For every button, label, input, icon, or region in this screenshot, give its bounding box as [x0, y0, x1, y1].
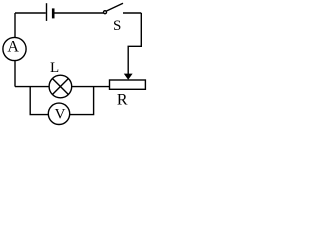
svg-text:A: A [7, 38, 19, 55]
svg-text:S: S [113, 18, 121, 34]
svg-text:L: L [50, 60, 59, 76]
svg-text:V: V [55, 107, 66, 123]
svg-text:R: R [117, 91, 128, 108]
